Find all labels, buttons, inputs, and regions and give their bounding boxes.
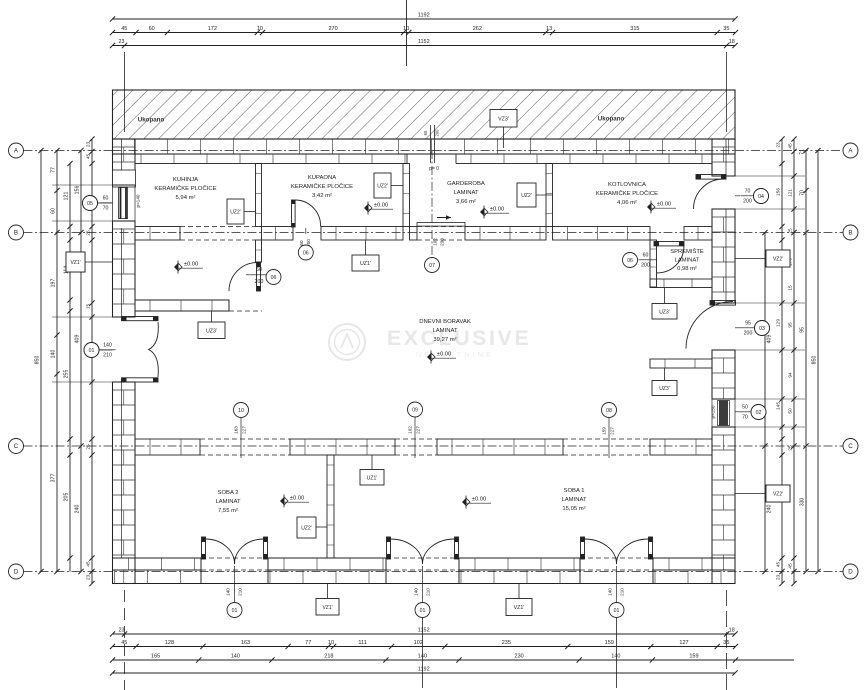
- box UZ3 spremiste: [652, 304, 677, 320]
- bottom extension lines: [124, 590, 126, 690]
- svg-text:60: 60: [149, 26, 155, 32]
- level marker soba2: [280, 497, 284, 505]
- svg-text:227: 227: [242, 426, 247, 434]
- svg-text:VZ3': VZ3': [498, 116, 509, 122]
- svg-text:210: 210: [238, 588, 243, 596]
- axis circle B right: [843, 225, 858, 240]
- tag 01 bottom door #3: [616, 566, 618, 602]
- svg-text:15: 15: [788, 285, 794, 291]
- dimension top row segments: [113, 32, 736, 34]
- level marker garderoba: [480, 208, 484, 216]
- garderoba niche cut: [407, 155, 456, 165]
- svg-text:94: 94: [788, 372, 794, 378]
- svg-text:102: 102: [408, 426, 413, 434]
- axis circle C right: [843, 439, 858, 454]
- svg-text:±0.00: ±0.00: [437, 352, 451, 358]
- wall: band B kotlovnica: [553, 227, 651, 241]
- box VZ1 bottom left: [316, 599, 339, 616]
- svg-text:LAMINAT: LAMINAT: [561, 497, 586, 503]
- box VZ2 right bottom: [766, 485, 790, 502]
- wall: top exterior band outer leaf: [113, 139, 736, 154]
- box VZ2 right bottom (over dims): [766, 485, 790, 502]
- axis circle D right: [843, 564, 858, 579]
- svg-text:SOBA 2: SOBA 2: [218, 490, 239, 496]
- tag 01 bottom door #1: [234, 566, 236, 602]
- svg-text:210: 210: [426, 588, 431, 596]
- tag 04 kotlovnica door: [754, 189, 769, 204]
- svg-text:06: 06: [627, 258, 633, 264]
- svg-text:315: 315: [630, 26, 639, 32]
- dim right col3: [793, 139, 795, 584]
- svg-text:60: 60: [51, 208, 57, 214]
- wall: right exterior seg3: [712, 350, 735, 399]
- box UZ2 garderoba: [517, 183, 536, 207]
- svg-text:50: 50: [788, 408, 794, 414]
- svg-text:23: 23: [118, 39, 124, 45]
- box UZ2 kitchen: [227, 199, 244, 224]
- svg-text:Ukopano: Ukopano: [138, 117, 165, 124]
- svg-text:23: 23: [86, 575, 92, 581]
- axis line D: [24, 571, 844, 573]
- box VZ1 left: [66, 252, 85, 272]
- svg-text:UZ2': UZ2': [230, 210, 240, 216]
- tag 01 bottom door #2: [422, 566, 424, 602]
- wall: top exterior band inner leaf: [135, 154, 712, 164]
- svg-text:205: 205: [64, 493, 70, 502]
- extension below door2: [422, 618, 424, 688]
- svg-text:±0.00: ±0.00: [290, 496, 304, 502]
- svg-text:VZ2': VZ2': [773, 257, 783, 263]
- svg-text:409: 409: [75, 335, 81, 344]
- level marker kotlovnica: [647, 203, 651, 211]
- dimension bottom row segments: [113, 646, 736, 648]
- axis line B: [24, 232, 844, 234]
- svg-text:172: 172: [208, 26, 217, 32]
- axis circle B left: [9, 225, 24, 240]
- svg-text:230: 230: [440, 238, 445, 246]
- svg-text:p=150: p=150: [711, 405, 716, 418]
- svg-text:25: 25: [86, 444, 92, 450]
- wall: band C opening 09: [395, 438, 437, 440]
- svg-text:01: 01: [89, 348, 95, 354]
- svg-text:60: 60: [423, 130, 428, 135]
- shaft lines garderoba: [430, 125, 432, 163]
- box VZ1 bottom right: [506, 599, 532, 616]
- level marker soba1: [462, 498, 466, 506]
- svg-text:KOTLOVNICA: KOTLOVNICA: [608, 182, 646, 188]
- svg-text:95: 95: [788, 322, 794, 328]
- svg-text:06: 06: [271, 275, 277, 281]
- svg-text:04: 04: [758, 194, 764, 200]
- dimension top row total 1192: [113, 18, 736, 20]
- right wall horizontal extension lines: [735, 175, 805, 177]
- wall: kitchen bottom band: [135, 300, 229, 311]
- svg-text:121: 121: [788, 189, 794, 197]
- svg-text:227: 227: [610, 427, 615, 435]
- wall: band C opening 08: [563, 438, 650, 440]
- svg-text:10: 10: [328, 640, 334, 646]
- svg-text:KERAMIČKE PLOČICE: KERAMIČKE PLOČICE: [154, 185, 216, 192]
- svg-text:03: 03: [759, 326, 765, 332]
- svg-text:128: 128: [165, 640, 174, 646]
- svg-text:25: 25: [86, 230, 92, 236]
- svg-text:330: 330: [800, 498, 806, 507]
- svg-text:08: 08: [606, 408, 612, 414]
- svg-text:EXCLUSIVE: EXCLUSIVE: [387, 326, 531, 350]
- wall: band B kitchen part: [135, 227, 180, 241]
- svg-text:23: 23: [86, 142, 92, 148]
- svg-text:70: 70: [800, 190, 806, 196]
- svg-text:200: 200: [641, 263, 650, 269]
- svg-text:102: 102: [414, 640, 423, 646]
- svg-text:262: 262: [473, 26, 482, 32]
- tag 01 door left: [84, 343, 99, 358]
- wall: spremiste left: [650, 240, 657, 287]
- level marker dnevni: [427, 353, 431, 361]
- tag 05 window left: [83, 196, 98, 211]
- svg-text:D: D: [848, 568, 853, 575]
- svg-text:140: 140: [607, 588, 612, 596]
- tag 07 garderoba: [431, 150, 433, 257]
- svg-text:230: 230: [515, 654, 524, 660]
- box UZ3 stub: [652, 381, 677, 396]
- axis line C: [24, 445, 844, 447]
- wall: band B garderoba: [410, 227, 418, 241]
- svg-text:1152: 1152: [418, 39, 430, 45]
- svg-text:45: 45: [86, 154, 92, 160]
- svg-text:200: 200: [744, 331, 753, 337]
- svg-text:10: 10: [257, 26, 263, 32]
- hatched strip (Ukopano): [113, 90, 736, 139]
- svg-text:VZ2': VZ2': [773, 492, 783, 498]
- svg-text:10: 10: [238, 408, 244, 414]
- wall: band B kupaona right: [321, 227, 403, 241]
- svg-text:UZ3': UZ3': [659, 386, 669, 392]
- svg-text:23: 23: [118, 628, 124, 634]
- door 01 bottom #2 (double): [387, 537, 391, 559]
- svg-text:02: 02: [756, 410, 762, 416]
- svg-text:121: 121: [64, 192, 70, 201]
- svg-text:23: 23: [776, 575, 782, 581]
- svg-text:210: 210: [620, 588, 625, 596]
- box UZ2 kupaona: [374, 173, 391, 198]
- svg-text:SPREMIŠTE: SPREMIŠTE: [670, 248, 704, 255]
- svg-text:25: 25: [788, 445, 794, 451]
- svg-text:B: B: [848, 229, 852, 236]
- wall: right exterior top: [712, 139, 735, 176]
- dimension bottom row segments 2: [113, 659, 736, 661]
- svg-text:±0.00: ±0.00: [490, 207, 504, 213]
- svg-text:3,42 m²: 3,42 m²: [312, 193, 332, 199]
- tag 01 circle left (over dims): [84, 343, 99, 358]
- svg-text:102: 102: [433, 238, 438, 246]
- box UZ2 soba2: [297, 517, 316, 538]
- tag 06 spremiste: [623, 253, 638, 268]
- svg-text:377: 377: [51, 474, 57, 483]
- svg-text:129: 129: [776, 319, 782, 327]
- svg-text:270: 270: [328, 26, 337, 32]
- axis circle A right: [843, 143, 858, 158]
- svg-text:165: 165: [151, 654, 160, 660]
- svg-text:±0.00: ±0.00: [472, 497, 486, 503]
- svg-text:77: 77: [305, 640, 311, 646]
- svg-text:1192: 1192: [418, 667, 430, 673]
- svg-text:60: 60: [103, 196, 109, 202]
- svg-text:C: C: [14, 443, 19, 450]
- box VZ2 right top (over dims): [766, 250, 790, 267]
- svg-text:18: 18: [729, 39, 735, 45]
- svg-text:15,05 m²: 15,05 m²: [562, 506, 585, 512]
- svg-text:06: 06: [303, 250, 309, 256]
- svg-text:±0.00: ±0.00: [374, 203, 388, 209]
- svg-text:05: 05: [87, 201, 93, 207]
- svg-text:KERAMIČKE PLOČICE: KERAMIČKE PLOČICE: [291, 183, 353, 190]
- level marker kitchen: [174, 263, 178, 271]
- svg-text:LAMINAT: LAMINAT: [215, 499, 240, 505]
- svg-text:GARDEROBA: GARDEROBA: [447, 181, 485, 187]
- svg-text:240: 240: [75, 505, 81, 514]
- wall: right exterior bottom: [712, 427, 735, 584]
- svg-text:95: 95: [745, 321, 751, 327]
- svg-text:LAMINAT: LAMINAT: [675, 258, 700, 264]
- axis line A: [24, 150, 113, 152]
- door 04 opening edges: [712, 175, 735, 177]
- wall: bottom exterior: [113, 558, 202, 570]
- dim left col4: [80, 151, 82, 572]
- extension below door3: [616, 618, 618, 688]
- svg-text:111: 111: [358, 640, 366, 646]
- box VZ1 left (over dims): [66, 252, 85, 272]
- dim right col5: [817, 151, 819, 572]
- svg-text:140: 140: [611, 654, 620, 660]
- svg-text:07: 07: [429, 263, 435, 269]
- wall: band C seg1: [135, 439, 200, 455]
- svg-text:50: 50: [742, 405, 748, 411]
- svg-text:850: 850: [812, 356, 818, 365]
- svg-text:45: 45: [86, 561, 92, 567]
- tag 08 band C: [602, 403, 617, 418]
- svg-text:140: 140: [103, 343, 112, 349]
- dim left col3: [69, 164, 71, 572]
- dim left col5: [91, 139, 93, 584]
- svg-text:140: 140: [418, 654, 427, 660]
- dimension bottom row 1152: [113, 633, 736, 635]
- wall: stub right: [650, 359, 712, 368]
- dim left col2: [56, 151, 58, 572]
- svg-text:D: D: [14, 568, 19, 575]
- svg-text:39,27 m²: 39,27 m²: [433, 337, 456, 343]
- svg-text:C: C: [848, 443, 853, 450]
- tag 03 circle (over dims): [755, 321, 770, 336]
- dimension bottom row total 1192: [113, 672, 736, 674]
- door 06 spremiste: [654, 242, 684, 246]
- svg-text:77: 77: [51, 167, 57, 173]
- svg-text:240: 240: [767, 505, 773, 514]
- svg-text:0,98 m²: 0,98 m²: [677, 266, 697, 272]
- box UZ1 below kupaona: [352, 255, 379, 271]
- svg-text:159: 159: [605, 640, 614, 646]
- svg-text:45: 45: [788, 563, 794, 569]
- tag 03 entrance: [755, 321, 770, 336]
- tag 04 circle (over dims): [754, 189, 769, 204]
- svg-text:3,66 m²: 3,66 m²: [456, 199, 476, 205]
- door 04 kotlovnica: [696, 175, 726, 180]
- svg-text:01: 01: [614, 608, 620, 614]
- svg-text:B: B: [14, 229, 18, 236]
- svg-text:UZ1': UZ1': [360, 261, 371, 267]
- svg-text:70: 70: [103, 206, 109, 212]
- svg-text:35: 35: [723, 26, 729, 32]
- watermark logo circle: [329, 324, 365, 360]
- box UZ3 kitchen: [198, 322, 225, 339]
- svg-text:p=140: p=140: [136, 194, 141, 207]
- svg-text:127: 127: [679, 640, 688, 646]
- door 01 left (double entry): [122, 317, 159, 321]
- window 02 in right wall: [712, 398, 735, 400]
- svg-text:±0.00: ±0.00: [657, 202, 671, 208]
- svg-text:140: 140: [51, 350, 57, 359]
- axis circle D left: [9, 564, 24, 579]
- dimension top row 1152: [113, 45, 736, 47]
- svg-text:60: 60: [299, 240, 304, 246]
- svg-text:163: 163: [234, 426, 239, 434]
- svg-text:±0.00: ±0.00: [184, 262, 198, 268]
- svg-text:218: 218: [324, 654, 333, 660]
- svg-text:7,55 m²: 7,55 m²: [218, 508, 238, 514]
- box UZ1 band C: [360, 470, 384, 486]
- svg-text:156: 156: [75, 186, 81, 195]
- svg-text:159: 159: [689, 654, 698, 660]
- svg-text:200: 200: [435, 129, 440, 137]
- svg-text:145: 145: [776, 402, 782, 410]
- svg-text:235: 235: [502, 640, 511, 646]
- tag 09 band C: [408, 402, 423, 417]
- sliding door garderoba: [417, 223, 465, 227]
- svg-text:1192: 1192: [418, 13, 430, 19]
- wall: left exterior lower: [113, 382, 136, 584]
- svg-text:5,94 m²: 5,94 m²: [176, 195, 196, 201]
- svg-text:23: 23: [776, 142, 782, 148]
- dim right col2: [781, 139, 783, 584]
- svg-text:163: 163: [241, 640, 250, 646]
- door 01 bottom #1 (double): [202, 537, 206, 559]
- door 01 bottom #3 (double): [581, 537, 585, 559]
- svg-text:95: 95: [800, 327, 806, 333]
- svg-text:60: 60: [643, 253, 649, 259]
- svg-text:197: 197: [51, 279, 57, 288]
- svg-text:45: 45: [121, 26, 127, 32]
- svg-text:01: 01: [420, 608, 426, 614]
- bottom row3 extension to right strip: [735, 659, 794, 661]
- svg-text:KUPAONA: KUPAONA: [308, 175, 336, 181]
- svg-text:01: 01: [232, 608, 238, 614]
- svg-text:409: 409: [767, 335, 773, 344]
- wall: spremiste bottom: [650, 279, 712, 288]
- wall: partition kitchen/kupaona: [256, 164, 262, 227]
- svg-text:45: 45: [788, 143, 794, 149]
- dim right inner: [764, 233, 766, 572]
- svg-text:18: 18: [729, 628, 735, 634]
- wall: left exterior upper: [113, 139, 136, 185]
- svg-text:25: 25: [788, 228, 794, 234]
- svg-text:159: 159: [602, 427, 607, 435]
- dim left total 850: [40, 151, 42, 572]
- svg-text:VZ1': VZ1': [70, 260, 80, 266]
- wall: partition kitchen/kupaona lower: [256, 240, 262, 262]
- axis circle C left: [9, 439, 24, 454]
- svg-text:70: 70: [745, 189, 751, 195]
- svg-text:09: 09: [412, 407, 418, 413]
- svg-text:140: 140: [231, 654, 240, 660]
- left wall horizontal extension lines: [52, 184, 113, 186]
- wall: right exterior seg2: [712, 209, 735, 303]
- svg-text:VZ1': VZ1': [514, 605, 525, 611]
- wall: band C seg3: [437, 439, 563, 455]
- door 06 kupaona: [292, 200, 296, 227]
- svg-text:DNEVNI BORAVAK: DNEVNI BORAVAK: [419, 319, 471, 325]
- svg-text:SOBA 1: SOBA 1: [564, 488, 585, 494]
- svg-text:Ukopano: Ukopano: [598, 116, 625, 123]
- svg-text:200: 200: [255, 279, 264, 285]
- svg-text:UZ3': UZ3': [659, 309, 669, 315]
- wall: band C seg2: [290, 439, 395, 455]
- axis circle A left: [9, 143, 24, 158]
- box VZ3 in hatch: [490, 110, 517, 128]
- wall: left exterior mid: [113, 221, 136, 317]
- window 05 in left wall: [113, 184, 136, 186]
- wall: band C seg4: [650, 439, 712, 455]
- svg-text:60: 60: [256, 267, 262, 273]
- dim right col4: [805, 151, 807, 572]
- top extension lines: [124, 52, 126, 132]
- wall: partition kupaona/garderoba: [403, 164, 410, 227]
- tag 02 circle (over dims): [751, 405, 766, 420]
- tag 02 window right: [751, 405, 766, 420]
- svg-text:45: 45: [776, 562, 782, 568]
- entry arrow garderoba: [437, 217, 451, 219]
- svg-text:255: 255: [64, 370, 70, 379]
- svg-text:LAMINAT: LAMINAT: [453, 190, 478, 196]
- svg-text:210: 210: [103, 353, 112, 359]
- tag 10 band C: [234, 403, 249, 418]
- svg-text:UZ2': UZ2': [521, 193, 531, 199]
- svg-text:UZ1': UZ1': [367, 475, 377, 481]
- level marker kupaona: [364, 204, 368, 212]
- svg-text:140: 140: [413, 588, 418, 596]
- svg-text:140: 140: [225, 588, 230, 596]
- wall: partition garderoba/kotlovnica: [546, 164, 553, 227]
- svg-text:VZ1': VZ1': [322, 605, 332, 611]
- svg-text:227: 227: [416, 426, 421, 434]
- svg-text:71: 71: [800, 149, 806, 155]
- wall: partition soba2/hall: [327, 455, 334, 558]
- svg-text:1152: 1152: [418, 628, 430, 634]
- door 03 entrance: [710, 301, 736, 306]
- svg-text:850: 850: [35, 356, 41, 365]
- svg-text:UZ2': UZ2': [377, 184, 387, 190]
- box VZ2 right top: [766, 250, 790, 267]
- svg-text:15: 15: [86, 304, 92, 310]
- svg-text:LAMINAT: LAMINAT: [432, 328, 457, 334]
- door 06 kitchen: [257, 262, 261, 291]
- svg-text:KERAMIČKE PLOČICE: KERAMIČKE PLOČICE: [596, 190, 658, 197]
- svg-text:70: 70: [742, 415, 748, 421]
- svg-text:UZ2': UZ2': [301, 526, 311, 532]
- svg-text:13: 13: [546, 26, 552, 32]
- svg-text:156: 156: [776, 188, 782, 196]
- svg-text:KUHINJA: KUHINJA: [173, 177, 198, 183]
- svg-text:200: 200: [743, 199, 752, 205]
